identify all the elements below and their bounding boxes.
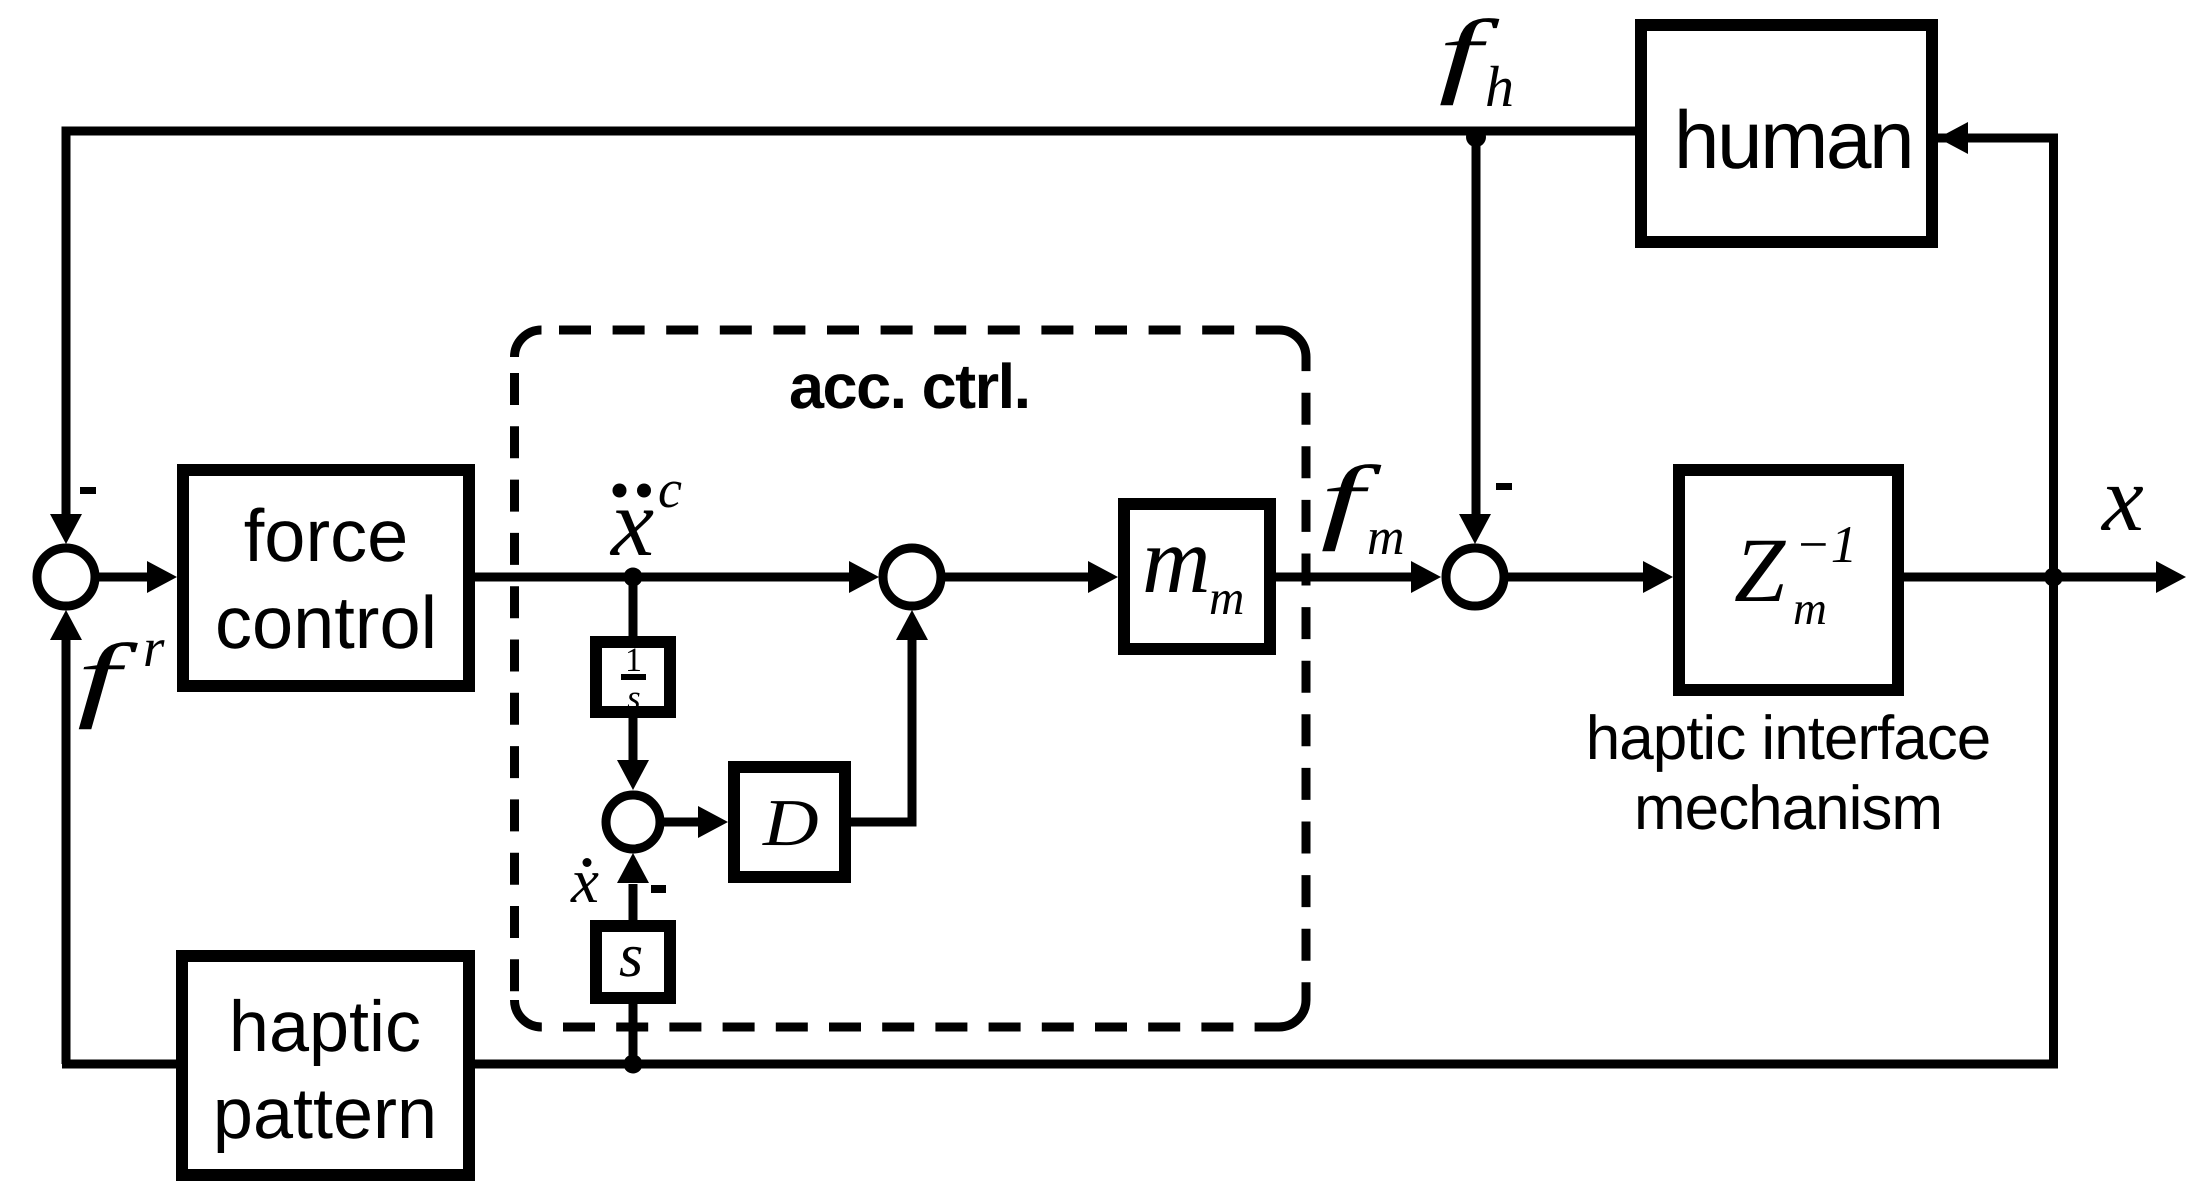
label x output — [2100, 447, 2144, 551]
arrowhead minus into left sum — [50, 514, 82, 544]
summing junction S1 — [37, 548, 95, 606]
label minus at S4 — [651, 885, 666, 893]
svg-text:D: D — [762, 786, 819, 860]
svg-text:pattern: pattern — [213, 1074, 437, 1154]
summing junction S2 — [1446, 548, 1504, 606]
svg-text:Z: Z — [1734, 519, 1786, 621]
svg-text:m: m — [1209, 570, 1244, 625]
label acc. ctrl. — [789, 352, 1030, 422]
wire human input from x feedback — [475, 138, 2054, 1064]
svg-text:acc. ctrl.: acc. ctrl. — [789, 352, 1030, 422]
wire force control to m_m via sum — [475, 573, 851, 582]
wire s box to bottom line — [629, 1004, 638, 1064]
arrowhead into m_m — [1088, 561, 1118, 593]
arrowhead into force control — [147, 561, 177, 593]
wire D box up to S3 — [851, 640, 912, 822]
label f^r — [77, 617, 165, 730]
block m_m — [1124, 504, 1270, 649]
wire m_m to sum2 — [1276, 573, 1413, 582]
svg-text:m: m — [1793, 583, 1827, 635]
svg-text:s: s — [627, 678, 641, 717]
svg-text:m: m — [1367, 509, 1405, 566]
arrowhead into sum2 — [1411, 561, 1441, 593]
dashed box acc. ctrl. — [515, 330, 1307, 1027]
block s differentiator — [596, 922, 670, 998]
summing junction S3 (acc) — [883, 548, 941, 606]
svg-text:1: 1 — [625, 642, 642, 679]
wire S3 to m_m — [941, 573, 1090, 582]
arrowhead into S4 from 1/s — [617, 760, 649, 790]
arrowhead f_h minus into sum2 — [1459, 514, 1491, 544]
arrowhead into Z box — [1643, 561, 1673, 593]
svg-text:m: m — [1142, 507, 1211, 613]
label xdot — [570, 846, 599, 916]
svg-text:h: h — [1485, 54, 1514, 119]
wire 1/s to S4 — [629, 718, 638, 762]
svg-text:haptic: haptic — [229, 987, 421, 1067]
label f_m — [1321, 446, 1405, 566]
svg-text:r: r — [143, 617, 165, 678]
block force control — [183, 470, 469, 686]
summing junction S4 (velocity) — [606, 795, 660, 849]
svg-text:x: x — [2100, 447, 2144, 551]
block human — [1641, 25, 1932, 242]
svg-text:haptic interface: haptic interface — [1586, 704, 1990, 773]
label f_h — [1439, 0, 1515, 119]
block D damping — [734, 767, 845, 877]
node xddot junction dot — [624, 568, 643, 587]
wire f_h drop to sum2 — [1472, 131, 1481, 517]
arrowhead output x — [2156, 561, 2186, 593]
wire Z box to output — [1904, 573, 2158, 582]
arrowhead into S4 from s box — [617, 853, 649, 883]
arrowhead f^r into S1 — [50, 610, 82, 640]
svg-text:s: s — [619, 922, 643, 990]
node bottom junction dot — [624, 1055, 643, 1074]
label minus at left sum — [80, 487, 96, 494]
block Z_m^-1 haptic interface mechanism — [1586, 470, 1990, 843]
svg-text:control: control — [215, 581, 437, 664]
block 1/s integrator — [596, 642, 670, 717]
wire S4 to D box — [660, 818, 700, 827]
wire S1 to force control — [95, 573, 149, 582]
svg-text:x: x — [570, 846, 599, 916]
block haptic pattern — [182, 956, 469, 1175]
label minus at sum2 — [1496, 483, 1512, 490]
arrowhead into S3 from D — [896, 610, 928, 640]
arrowhead into D box — [698, 806, 728, 838]
svg-text:−1: −1 — [1795, 516, 1857, 574]
node output junction dot — [2044, 568, 2063, 587]
arrowhead into human — [1938, 122, 1968, 154]
svg-text:force: force — [244, 494, 409, 577]
wire top feedback f_h line — [66, 131, 1635, 521]
wire bottom-left to haptic pattern — [62, 1060, 176, 1069]
svg-text:c: c — [658, 459, 682, 519]
svg-text:human: human — [1674, 95, 1912, 186]
arrowhead into middle sum — [849, 561, 879, 593]
wire junction to 1/s box — [629, 577, 638, 636]
node f_h junction dot — [1466, 127, 1486, 147]
wire f^r riser — [62, 640, 71, 1064]
wire S2 to Z box — [1504, 573, 1645, 582]
svg-text:mechanism: mechanism — [1634, 774, 1942, 843]
label xddot^c — [609, 459, 682, 576]
wire s box to S4 — [629, 884, 638, 920]
